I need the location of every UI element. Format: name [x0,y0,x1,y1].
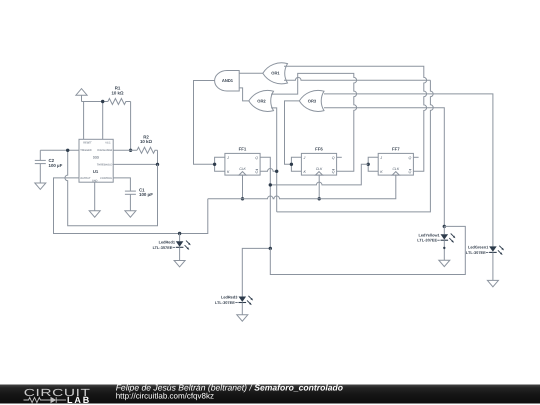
svg-text:DISCHARGE: DISCHARGE [97,149,112,152]
node VCC junction [101,100,104,103]
wire LedYellow branch to bottom rail [270,226,465,274]
node FF6 clk junction [318,197,321,200]
or-gate OR2 [249,90,274,111]
wire FF6 Q stub [337,156,342,158]
wire FF1 Q output drop [260,157,270,248]
wire VCC rail to R1 [82,101,108,103]
wire FF1 Q to FF7 input [270,164,368,185]
svg-text:LAB: LAB [67,395,91,405]
flip-flop FF1 [225,146,260,175]
node FF1 Q branch junction [269,183,272,186]
svg-text:Q: Q [332,170,335,174]
op-amp U1 555 box [79,139,113,182]
svg-text:CLK: CLK [316,167,323,171]
svg-text:Q: Q [255,156,258,160]
wire FF7 CLK drop joins clock rail [208,175,396,199]
svg-text:OUTPUT: OUTPUT [80,177,91,180]
and-gate AND1 [215,71,240,92]
svg-text:GND: GND [92,179,98,182]
svg-text:Q: Q [332,156,335,160]
wire OR2 bottom input from FF1 Qbar [271,108,277,212]
wire THRESHOLD [113,163,157,165]
ground below LedGreen1 [487,280,498,286]
wire OR3 bottom input to LedYellow1 [324,108,444,227]
svg-text:AND1: AND1 [222,78,234,83]
ground below C2 [35,183,46,189]
svg-text:TRIGGER: TRIGGER [80,149,92,152]
svg-text:J: J [379,156,382,160]
node FF7 input junction [367,163,370,166]
ground below LedYellow1 [439,260,450,266]
node threshold junction [156,163,159,166]
svg-text:100 µF: 100 µF [49,163,63,168]
svg-text:Q: Q [255,170,258,174]
resistor R1 [108,86,131,105]
svg-text:LedRed1: LedRed1 [159,239,176,244]
wire OR1 top input from FF7 Qbar [284,66,427,171]
svg-text:LTL-307EE: LTL-307EE [215,300,235,305]
capacitor C2 [35,150,63,183]
svg-text:10 kΩ: 10 kΩ [111,90,124,95]
svg-text:Q: Q [409,170,412,174]
node trigger junction [66,149,69,152]
flip-flop FF6 [301,146,336,175]
svg-text:RESET: RESET [83,142,92,145]
svg-text:LTL-307EE: LTL-307EE [153,245,173,250]
wire OR2 top input bridge from FF6 Qbar [271,73,357,171]
svg-text:LTL-307EE: LTL-307EE [417,238,437,243]
wire FF7 Q stub [413,156,418,158]
LED LedRed1 [153,232,191,261]
svg-text:10 kΩ: 10 kΩ [140,139,153,144]
wire RESET drop [83,102,85,140]
resistor R2 [137,134,158,153]
svg-text:LedGreen1: LedGreen1 [468,245,489,250]
svg-text:CONTROL: CONTROL [100,177,113,180]
svg-text:CLK: CLK [239,167,246,171]
ground below LedRed1 [174,261,185,267]
wire DISCHARGE to R2 [113,149,137,151]
node FF1 input junction [213,163,216,166]
wire FF6 JK tie [291,157,301,171]
wire OUTPUT left and down [54,178,208,234]
capacitor C1 [125,187,153,211]
wire OR3 output to FF6 input [285,101,300,164]
svg-text:FF6: FF6 [315,146,323,151]
wire LedRed3 feed [242,248,270,296]
svg-text:555: 555 [93,156,100,160]
wire threshold loop down and left [65,150,158,226]
ground below C1 [125,211,136,217]
svg-text:LTL-307EE: LTL-307EE [466,250,486,255]
ground below GND pin [89,211,100,217]
svg-text:OR3: OR3 [308,98,317,103]
or-gate OR1 [263,63,288,84]
ground below LedRed3 [237,315,248,321]
power VCC symbol [76,89,87,102]
node FF1 clk junction [241,197,244,200]
svg-text:FF7: FF7 [392,146,400,151]
flip-flop FF7 [378,146,413,175]
svg-text:Q: Q [409,156,412,160]
wire OR1 bottom input long [284,77,430,80]
svg-text:THRESHOLD: THRESHOLD [97,163,113,166]
wire AND1 top input from OR1 [239,72,263,74]
wire FF6 CLK drop [318,175,320,199]
wire FF1 JK tie [215,157,225,171]
LED LedGreen1 [466,245,504,281]
wire FF1 Qbar output [260,169,277,172]
wire GND pin drop [94,182,96,211]
wire AND1 output to FF1 input [194,81,215,165]
svg-text:http://circuitlab.com/cfqv8kz: http://circuitlab.com/cfqv8kz [116,392,214,401]
wire AND1 bottom input from OR2 [239,88,249,101]
or-gate OR3 [299,90,324,111]
svg-text:100 pF: 100 pF [139,192,153,197]
svg-text:J: J [226,156,229,160]
wire CONTROL to C1 [113,178,130,191]
svg-text:J: J [303,156,306,160]
wire OR3 top input to LedGreen1 [324,94,493,247]
svg-text:CLK: CLK [392,167,399,171]
node R1/discharge junction [129,149,132,152]
wire OR1 bottom drop to Qbar FF1 line [277,80,434,212]
svg-text:FF1: FF1 [239,146,247,151]
node LedRed3 branch junction [269,247,272,250]
node FF6 input junction [290,163,293,166]
wire TRIGGER row [40,149,79,151]
svg-text:U1: U1 [93,169,99,174]
svg-text:OR1: OR1 [271,71,280,76]
wire FF1 CLK drop [242,175,244,199]
wire R2 down to threshold [157,150,159,164]
svg-text:LedYellow1: LedYellow1 [418,232,440,237]
wire FF7 JK tie [368,157,378,171]
wire VCC pin drop [102,102,104,140]
svg-text:LedRed3: LedRed3 [221,295,238,300]
node FF1 Qbar junction [275,170,278,173]
svg-text:OR2: OR2 [257,98,266,103]
LED LedRed3 [215,295,253,315]
LED LedYellow1 [417,225,455,261]
wire R1 to discharge row [130,102,132,151]
svg-text:VCC: VCC [105,142,110,145]
